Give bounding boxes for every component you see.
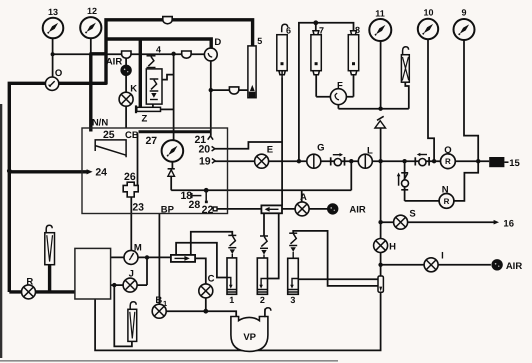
svg-text:4: 4	[156, 45, 161, 55]
svg-text:BP: BP	[161, 205, 175, 216]
svg-text:13: 13	[48, 7, 58, 17]
svg-text:20: 20	[198, 144, 210, 156]
svg-text:I: I	[441, 250, 444, 261]
svg-text:12: 12	[87, 6, 97, 16]
svg-text:A: A	[300, 192, 307, 203]
svg-text:CB: CB	[125, 130, 139, 141]
svg-text:11: 11	[375, 9, 385, 19]
svg-text:24: 24	[95, 167, 107, 179]
svg-text:VP: VP	[243, 332, 256, 343]
svg-text:F: F	[337, 81, 343, 92]
svg-text:AIR: AIR	[349, 204, 366, 215]
svg-text:L: L	[367, 145, 373, 156]
svg-text:7: 7	[319, 26, 324, 36]
svg-text:B: B	[155, 295, 162, 306]
svg-text:15: 15	[509, 158, 520, 169]
svg-text:10: 10	[423, 8, 433, 18]
svg-text:6: 6	[286, 26, 291, 36]
svg-text:H: H	[389, 241, 396, 252]
svg-text:C: C	[208, 273, 215, 284]
svg-text:J: J	[129, 268, 134, 279]
svg-text:16: 16	[503, 218, 514, 229]
svg-text:AIR: AIR	[106, 57, 123, 68]
svg-text:R: R	[26, 276, 33, 287]
svg-text:1: 1	[229, 295, 234, 305]
svg-text:AIR: AIR	[506, 261, 523, 272]
svg-text:K: K	[130, 84, 137, 95]
svg-text:8: 8	[355, 25, 360, 35]
svg-text:3: 3	[290, 295, 295, 305]
svg-text:27: 27	[145, 135, 157, 147]
svg-text:M: M	[134, 242, 142, 253]
svg-text:R: R	[445, 157, 451, 166]
svg-text:2: 2	[260, 295, 265, 305]
svg-text:N/N: N/N	[92, 117, 109, 128]
svg-text:23: 23	[132, 202, 144, 214]
svg-text:G: G	[317, 143, 324, 154]
svg-text:1: 1	[163, 299, 167, 308]
svg-text:19: 19	[199, 156, 211, 168]
svg-text:Q: Q	[444, 145, 451, 156]
svg-text:22: 22	[202, 204, 214, 216]
svg-text:28: 28	[189, 199, 201, 211]
svg-text:S: S	[409, 208, 415, 219]
svg-text:E: E	[267, 144, 273, 155]
svg-text:O: O	[55, 68, 62, 79]
svg-text:25: 25	[103, 129, 115, 141]
svg-text:5: 5	[257, 36, 262, 46]
svg-text:26: 26	[124, 171, 136, 183]
svg-text:9: 9	[461, 8, 466, 18]
svg-text:R: R	[444, 197, 450, 206]
svg-text:D: D	[214, 37, 221, 48]
svg-text:N: N	[442, 184, 449, 195]
svg-text:Z: Z	[141, 114, 147, 125]
